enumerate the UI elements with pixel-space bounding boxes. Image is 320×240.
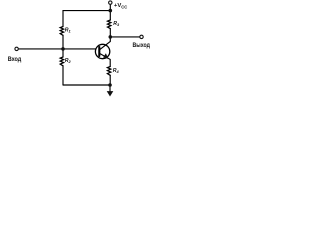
node: ground junction	[108, 83, 112, 87]
wire: output lead	[110, 36, 140, 38]
wire: bottom rail	[63, 84, 110, 86]
wire: R3 top lead	[109, 11, 111, 20]
wire: collector lead	[99, 37, 110, 50]
wire: Vcc stub	[109, 4, 111, 10]
wire: input lead	[18, 48, 63, 50]
transistor Q1 base bar	[98, 47, 100, 56]
wire: R2 top lead	[62, 49, 64, 57]
ground	[107, 91, 114, 96]
node: input/base junction	[61, 47, 65, 51]
wire: R1 bottom lead	[62, 35, 64, 49]
svg-text:R3: R3	[113, 21, 120, 27]
wire: R3 bottom lead	[109, 29, 111, 37]
terminal: output	[140, 35, 143, 38]
svg-text:Выход: Выход	[133, 42, 150, 49]
terminal: Vcc	[109, 1, 112, 4]
wire: R1 top lead	[62, 11, 64, 27]
svg-text:R1: R1	[65, 27, 71, 33]
wire: base wire	[63, 48, 96, 50]
resistor R4	[107, 67, 110, 76]
resistor R3	[108, 20, 111, 29]
transistor Q1 emitter arrow	[103, 53, 108, 59]
wire: ground stub	[109, 85, 111, 92]
svg-text:R4: R4	[113, 68, 120, 74]
wire: R2 bottom lead	[62, 66, 64, 85]
transistor Q1 circle	[95, 44, 109, 58]
wire: top rail	[63, 10, 110, 12]
node: Vcc junction	[109, 9, 113, 13]
wire: emitter lead	[99, 53, 110, 66]
resistor R1	[60, 27, 63, 36]
terminal: input	[15, 47, 18, 50]
svg-text:R2: R2	[65, 58, 72, 64]
node: collector/output junction	[109, 35, 113, 39]
resistor R2	[60, 57, 63, 66]
svg-text:Вход: Вход	[8, 56, 22, 63]
svg-text:+VCC: +VCC	[114, 3, 127, 10]
wire: R4 bottom lead	[109, 75, 111, 85]
